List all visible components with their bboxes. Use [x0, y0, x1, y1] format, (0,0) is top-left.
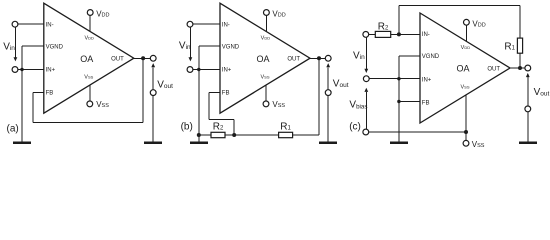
svg-text:VGND: VGND	[422, 54, 440, 60]
svg-text:(b): (b)	[181, 122, 193, 133]
svg-text:VGND: VGND	[222, 44, 240, 50]
svg-text:OA: OA	[80, 54, 93, 64]
svg-text:VGND: VGND	[46, 44, 64, 50]
svg-text:IN-: IN-	[46, 22, 54, 28]
svg-text:IN-: IN-	[222, 22, 230, 28]
svg-text:OUT: OUT	[287, 57, 300, 63]
svg-text:OUT: OUT	[111, 57, 124, 63]
svg-text:OUT: OUT	[487, 66, 500, 72]
svg-text:IN+: IN+	[222, 68, 232, 74]
svg-text:(a): (a)	[7, 124, 19, 135]
svg-text:OA: OA	[456, 64, 469, 74]
svg-text:FB: FB	[222, 90, 230, 96]
svg-text:FB: FB	[46, 90, 54, 96]
svg-text:OA: OA	[256, 54, 269, 64]
svg-text:IN-: IN-	[422, 32, 430, 38]
svg-text:FB: FB	[422, 100, 430, 106]
svg-text:(c): (c)	[349, 122, 361, 133]
svg-text:IN+: IN+	[46, 68, 56, 74]
svg-text:IN+: IN+	[422, 77, 432, 83]
